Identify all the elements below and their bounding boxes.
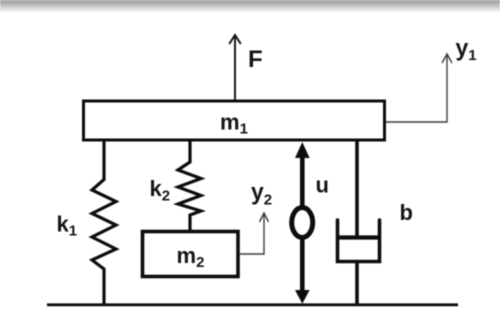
ground line [47,303,458,306]
svg-text:b: b [400,200,413,225]
damper rod top [355,140,359,237]
actuator circle [292,208,313,238]
damper rod bottom [355,261,359,305]
force arrow F [229,35,241,100]
svg-text:u: u [316,173,329,198]
svg-text:F: F [248,46,263,73]
mass m1 [84,101,385,140]
spring k1 [92,140,116,305]
actuator u shaft [300,152,305,292]
top shadow bar [0,0,500,13]
spring k2 [178,140,201,231]
output connector y1 [386,54,452,122]
actuator arrowhead top [295,142,310,158]
actuator arrowhead bottom [295,290,310,304]
output connector y2 [240,213,269,254]
damper piston plate [337,235,380,239]
damper cup [338,220,380,262]
mass m2 [143,232,239,277]
